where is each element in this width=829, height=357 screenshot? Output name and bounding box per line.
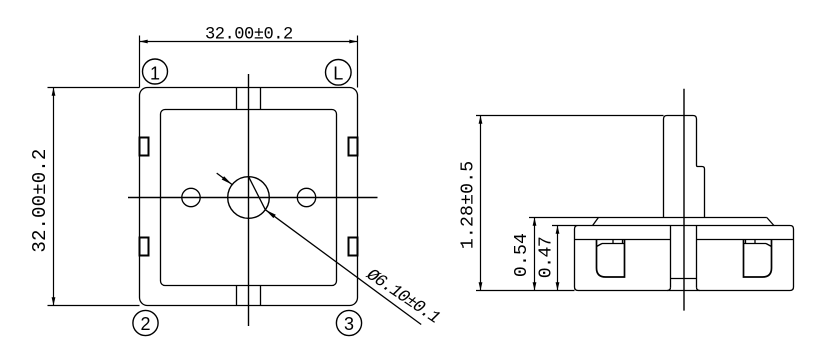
svg-text:0.47: 0.47	[537, 237, 557, 278]
svg-text:L: L	[333, 63, 343, 83]
svg-text:1.28±0.5: 1.28±0.5	[459, 161, 479, 250]
svg-text:32.00±0.2: 32.00±0.2	[29, 149, 51, 253]
svg-text:32.00±0.2: 32.00±0.2	[205, 26, 293, 45]
svg-text:2: 2	[140, 314, 150, 334]
svg-text:0.54: 0.54	[512, 233, 532, 277]
svg-text:1: 1	[150, 63, 160, 83]
svg-text:3: 3	[344, 314, 354, 334]
